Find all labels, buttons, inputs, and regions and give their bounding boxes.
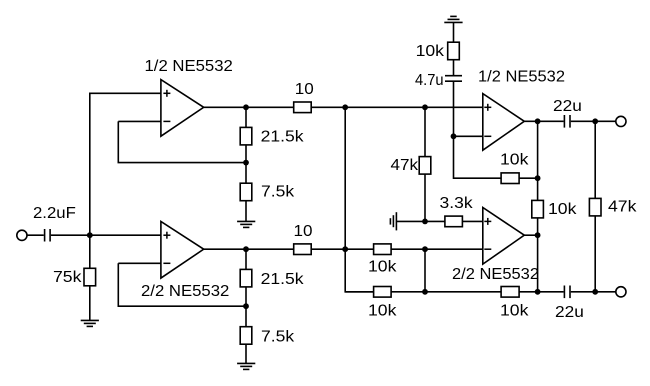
svg-text:1/2 NE5532: 1/2 NE5532 bbox=[145, 58, 233, 75]
wire minus node to U2A bbox=[454, 135, 483, 137]
svg-text:10: 10 bbox=[294, 223, 313, 240]
svg-text:10k: 10k bbox=[500, 151, 530, 168]
wire input node to R 75k bbox=[89, 235, 91, 268]
svg-text:10: 10 bbox=[295, 81, 314, 98]
resistor 3.3k bbox=[445, 216, 463, 227]
resistor 47k shunt bbox=[419, 157, 431, 175]
wire input node to U1A + input bbox=[90, 93, 161, 235]
op-amp U2A 1/2 NE5532 bbox=[483, 94, 525, 151]
ground GND5 inverted top bbox=[444, 16, 462, 22]
ground GND1 bbox=[81, 320, 99, 326]
node out plus junction bbox=[592, 118, 598, 124]
svg-text:10k: 10k bbox=[548, 201, 578, 218]
resistor 10k U2A feedback bbox=[501, 173, 519, 184]
wire minus node down to bottom line bbox=[424, 249, 426, 292]
wire GND4 to junction bbox=[396, 220, 425, 222]
wire U2B out down to bottom line bbox=[537, 235, 539, 292]
svg-text:75k: 75k bbox=[53, 269, 83, 286]
svg-text:10k: 10k bbox=[416, 43, 446, 60]
U2A minus symbol bbox=[484, 135, 491, 137]
wire R7.5k to ground bbox=[245, 201, 247, 222]
node U1A feedback bbox=[243, 160, 249, 166]
wire U1A output bbox=[204, 106, 294, 108]
wire R10k to C4.7u bbox=[453, 60, 455, 75]
resistor 7.5k U1A bbox=[240, 183, 252, 201]
wire feedback R to U2B out node bbox=[519, 291, 538, 293]
U2B plus symbol bbox=[484, 218, 491, 225]
op-amp U1A 1/2 NE5532 bbox=[161, 80, 204, 137]
resistor 10 bottom bbox=[294, 244, 312, 255]
ground GND4 sideways bbox=[390, 212, 396, 230]
capacitor 22u bottom bbox=[564, 286, 570, 299]
wire minus node to feedback bottom bbox=[454, 136, 502, 178]
wire U1A out to R21.5k bbox=[245, 107, 247, 127]
resistor 10k input to U2B inverting bbox=[374, 244, 392, 255]
wire U1B out to R21.5k bbox=[245, 249, 247, 269]
wire 75k to ground bbox=[89, 286, 91, 321]
wire R21.5k to feedback node U1B bbox=[245, 287, 247, 306]
svg-text:2/2 NE5532: 2/2 NE5532 bbox=[452, 266, 539, 283]
node out minus junction bbox=[592, 289, 598, 295]
svg-text:21.5k: 21.5k bbox=[261, 129, 305, 146]
wire U1A feedback loop bbox=[118, 121, 246, 162]
node bottom out junction bbox=[535, 289, 541, 295]
wire C22u to out plus node bbox=[571, 120, 616, 122]
svg-text:22u: 22u bbox=[555, 304, 584, 321]
U1B plus symbol bbox=[163, 232, 170, 239]
wire feedback node to R7.5k U1B bbox=[245, 306, 247, 327]
svg-text:21.5k: 21.5k bbox=[261, 271, 305, 288]
wire R21.5k to feedback node bbox=[245, 145, 247, 163]
U1A plus symbol bbox=[163, 90, 170, 97]
wire GND5 to R10k bbox=[453, 22, 455, 42]
wire feedback node to R10k cross bbox=[537, 178, 539, 200]
U2A plus symbol bbox=[484, 104, 491, 111]
wire C1 to input node bbox=[51, 234, 90, 236]
resistor 47k across outputs bbox=[589, 198, 601, 216]
node U1B output bbox=[243, 246, 249, 252]
wire out plus node down to R47k bbox=[594, 121, 596, 198]
wire minus node to U2B bbox=[425, 248, 483, 250]
wire C4.7u to U2A minus node bbox=[453, 82, 455, 136]
wire node A down to bottom line bbox=[345, 107, 373, 291]
svg-text:3.3k: 3.3k bbox=[440, 195, 474, 212]
wire U2A out down to feedback node bbox=[537, 121, 539, 178]
node 47k 3.3k junction bbox=[422, 219, 428, 225]
wire R3.3k to U2B plus bbox=[462, 220, 482, 222]
svg-text:2/2 NE5532: 2/2 NE5532 bbox=[141, 283, 229, 300]
wire C22u to out minus node bbox=[571, 291, 616, 293]
wire R10 to node A2 bbox=[311, 248, 345, 250]
node main line to 47k bbox=[422, 104, 428, 110]
wire R10k cross to U2B out node bbox=[537, 218, 539, 235]
node U2B minus bbox=[422, 246, 428, 252]
wire R47k to junction bbox=[424, 174, 426, 221]
wire node A to U2A plus input bbox=[345, 106, 483, 108]
node A2 junction bbox=[342, 246, 348, 252]
wire bottom junction to U2B feedback R bbox=[425, 291, 501, 293]
svg-text:22u: 22u bbox=[553, 98, 582, 115]
wire node to R47k bbox=[424, 107, 426, 156]
svg-text:7.5k: 7.5k bbox=[261, 184, 295, 201]
node U2A feedback out bbox=[535, 175, 541, 181]
svg-text:10k: 10k bbox=[368, 259, 398, 276]
op-amp U1B 2/2 NE5532 bbox=[161, 222, 204, 279]
svg-text:7.5k: 7.5k bbox=[261, 328, 295, 345]
wire U2A output bbox=[524, 120, 563, 122]
node U2A out bbox=[535, 118, 541, 124]
wire U2B output bbox=[524, 234, 537, 236]
wire junction to R3.3k bbox=[425, 220, 445, 222]
wire bottom out node to C22u bbox=[538, 291, 564, 293]
svg-text:4.7u: 4.7u bbox=[415, 72, 444, 89]
wire bottom line left segment bbox=[345, 291, 373, 293]
node U2B out bbox=[535, 232, 541, 238]
node bottom line junction bbox=[422, 289, 428, 295]
wire U1B output bbox=[204, 248, 294, 250]
wire bottom line mid segment bbox=[391, 291, 425, 293]
wire node A2 to R10k bbox=[345, 248, 373, 250]
wire R10 to node A bbox=[311, 106, 345, 108]
node input junction bbox=[87, 232, 93, 238]
resistor 7.5k U1B bbox=[240, 327, 252, 345]
resistor 10k U2A bias bbox=[448, 42, 460, 60]
ground GND3 bbox=[237, 363, 255, 369]
output terminal J2 bbox=[616, 116, 626, 126]
wire U1B feedback loop bbox=[118, 263, 246, 306]
resistor 10k cross coupling bbox=[532, 200, 544, 218]
svg-text:47k: 47k bbox=[391, 157, 420, 174]
node U2A minus bbox=[451, 133, 457, 139]
wire J1 to C1 bbox=[26, 234, 43, 236]
capacitor C1 2.2uF bbox=[45, 229, 51, 242]
svg-text:47k: 47k bbox=[608, 199, 638, 216]
wire R47k to out minus node bbox=[594, 216, 596, 292]
resistor 10k U2B feedback bbox=[501, 287, 519, 298]
wire U1A - input bbox=[118, 120, 161, 122]
resistor 21.5k U1A bbox=[240, 127, 252, 144]
resistor 21.5k U1B bbox=[240, 269, 252, 287]
input terminal J1 bbox=[17, 230, 27, 240]
svg-text:10k: 10k bbox=[500, 302, 530, 319]
U1B minus symbol bbox=[163, 262, 170, 264]
node A top line tap bbox=[342, 104, 348, 110]
svg-text:1/2 NE5532: 1/2 NE5532 bbox=[478, 68, 565, 85]
node U1A output bbox=[243, 104, 249, 110]
wire U2A feedback R to out node bbox=[519, 177, 538, 179]
svg-text:2.2uF: 2.2uF bbox=[33, 205, 76, 222]
capacitor 22u top bbox=[564, 115, 570, 128]
op-amp U2B 2/2 NE5532 bbox=[483, 208, 525, 265]
node U1B feedback bbox=[243, 303, 249, 309]
wire R7.5k to ground U1B bbox=[245, 344, 247, 363]
U1A minus symbol bbox=[163, 120, 170, 122]
wire U1B - input bbox=[118, 262, 161, 264]
U2B minus symbol bbox=[484, 248, 491, 250]
svg-text:10k: 10k bbox=[368, 302, 398, 319]
ground GND2 bbox=[237, 221, 255, 227]
output terminal J3 bbox=[616, 287, 626, 297]
resistor 75k bbox=[84, 268, 96, 286]
capacitor 4.7u bbox=[445, 76, 462, 82]
wire input node to U1B + input bbox=[90, 234, 161, 236]
resistor 10 top bbox=[294, 102, 312, 113]
resistor 10k bottom line left bbox=[374, 287, 392, 298]
wire R10k to minus node bbox=[391, 248, 425, 250]
wire feedback node to R7.5k bbox=[245, 163, 247, 184]
